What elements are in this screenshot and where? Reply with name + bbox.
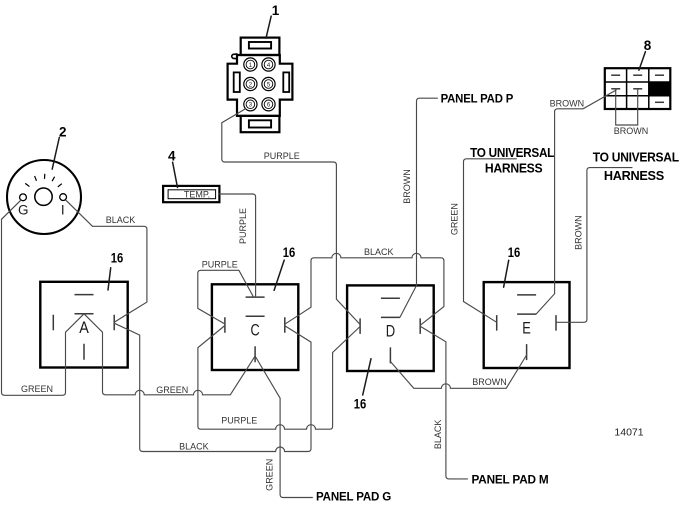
J1 pin 5 xyxy=(262,77,275,90)
label BLACK vertical at panel pad M xyxy=(433,420,443,450)
label PURPLE at relay C xyxy=(202,260,238,270)
svg-text:8: 8 xyxy=(644,38,652,53)
svg-text:A: A xyxy=(79,318,89,337)
wire black relay A right to relay C right terminal (bottom run) xyxy=(114,323,311,451)
svg-text:TO UNIVERSAL: TO UNIVERSAL xyxy=(593,151,680,165)
svg-text:16: 16 xyxy=(354,397,367,412)
wire green switch G to relay A center terminal xyxy=(2,200,85,395)
svg-text:PANEL PAD M: PANEL PAD M xyxy=(472,473,549,487)
svg-text:PANEL PAD P: PANEL PAD P xyxy=(441,91,514,105)
svg-text:BROWN: BROWN xyxy=(573,215,583,250)
key switch S2 xyxy=(7,160,81,234)
svg-text:TO UNIVERSAL: TO UNIVERSAL xyxy=(470,146,555,160)
wire green universal harness 1 to relay E left terminal xyxy=(464,159,517,322)
svg-text:HARNESS: HARNESS xyxy=(485,162,543,176)
svg-text:I: I xyxy=(61,202,65,217)
svg-text:G: G xyxy=(18,202,29,217)
label 16 for E with leader xyxy=(504,245,521,287)
wire brown PANEL PAD P to relay D center terminal xyxy=(400,98,438,317)
svg-text:TEMP.: TEMP. xyxy=(184,190,210,200)
label GREEN vertical at harness 1 xyxy=(449,203,459,235)
svg-text:PURPLE: PURPLE xyxy=(264,151,300,161)
label PURPLE bottom run xyxy=(221,416,257,426)
wire purple relay D left to bottom run to relay C left terminal xyxy=(198,326,360,430)
label 16 for A with leader xyxy=(108,250,124,290)
wire purple J1 pin3 to relay D left terminal xyxy=(222,109,360,325)
wire black relay D right to PANEL PAD M xyxy=(420,326,467,479)
label BROWN vertical at panel pad P xyxy=(402,169,412,204)
wire brown J8 to relay E top terminal xyxy=(536,90,616,314)
svg-text:E: E xyxy=(522,319,531,338)
svg-text:BLACK: BLACK xyxy=(364,247,394,257)
connector J1 (6-pin) xyxy=(228,38,293,133)
svg-text:D: D xyxy=(386,321,395,340)
svg-text:GREEN: GREEN xyxy=(156,385,188,395)
svg-text:PURPLE: PURPLE xyxy=(202,260,238,270)
node TO UNIVERSAL HARNESS 1 xyxy=(470,146,555,176)
svg-text:C: C xyxy=(251,320,260,339)
relay socket E xyxy=(484,282,570,368)
wire purple temp sender to relay C top terminal xyxy=(219,194,255,297)
svg-text:BROWN: BROWN xyxy=(550,99,585,109)
wire green relay C bottom to PANEL PAD G xyxy=(255,356,312,498)
label BROWN vertical at harness 2 xyxy=(573,215,583,250)
label GREEN left xyxy=(21,384,53,394)
svg-text:BLACK: BLACK xyxy=(433,420,443,450)
S2 terminal I xyxy=(60,194,67,218)
svg-text:1: 1 xyxy=(272,3,280,18)
label 8 with leader xyxy=(639,38,652,70)
svg-text:4: 4 xyxy=(168,149,176,164)
svg-text:BLACK: BLACK xyxy=(106,215,136,225)
relay socket C xyxy=(212,284,298,370)
label BLACK top run xyxy=(364,247,394,257)
J1 pin 4 xyxy=(262,58,275,71)
label BROWN between D and E xyxy=(472,377,507,387)
svg-text:PANEL PAD G: PANEL PAD G xyxy=(316,489,391,503)
svg-text:16: 16 xyxy=(283,245,296,260)
svg-text:PURPLE: PURPLE xyxy=(238,208,248,244)
relay socket D xyxy=(347,285,434,371)
J1 pin 1 xyxy=(244,58,257,71)
J1 pin 2 xyxy=(244,77,257,90)
node PANEL PAD G xyxy=(316,489,391,503)
svg-text:2: 2 xyxy=(59,124,67,139)
wire green relay A center to relay C bottom terminal xyxy=(84,314,255,395)
svg-text:16: 16 xyxy=(111,250,124,265)
node TO UNIVERSAL HARNESS 2 xyxy=(593,151,680,184)
label BLACK at switch xyxy=(106,215,136,225)
label BROWN at J8 xyxy=(550,99,585,109)
label PURPLE vertical at temp wire xyxy=(238,208,248,244)
J8 BROWN pin bracket xyxy=(614,90,649,137)
label PURPLE top xyxy=(264,151,300,161)
wire brown universal harness 2 to relay E right terminal xyxy=(556,168,632,323)
S2 terminal G xyxy=(18,194,29,217)
label 16 for D with leader xyxy=(354,359,371,412)
svg-text:HARNESS: HARNESS xyxy=(604,169,664,183)
J1 pin 6 xyxy=(262,98,275,111)
J1 pin 3 xyxy=(244,98,257,111)
label 4 with leader xyxy=(168,149,177,188)
node PANEL PAD P xyxy=(441,91,514,105)
label 2 with leader xyxy=(52,124,66,169)
part number 14071 xyxy=(614,427,643,439)
wire purple relay C left terminal to relay C top terminal xyxy=(198,270,254,324)
svg-text:14071: 14071 xyxy=(614,427,643,439)
wire black switch I to relay A right terminal xyxy=(66,200,147,322)
svg-text:PURPLE: PURPLE xyxy=(221,416,257,426)
svg-text:BLACK: BLACK xyxy=(179,441,209,451)
label 1 with leader xyxy=(266,3,280,38)
svg-text:BROWN: BROWN xyxy=(472,377,507,387)
temp sender 4 xyxy=(163,186,219,202)
svg-text:BROWN: BROWN xyxy=(614,126,649,136)
node PANEL PAD M xyxy=(472,473,549,487)
label GREEN vertical at panel pad G xyxy=(265,459,275,491)
wire brown relay D bottom to relay E bottom terminal xyxy=(390,355,526,388)
relay socket A xyxy=(40,282,127,368)
svg-text:GREEN: GREEN xyxy=(21,384,53,394)
svg-text:BROWN: BROWN xyxy=(402,169,412,204)
wire black relay C right to relay D right terminal (top run) xyxy=(285,253,444,325)
svg-text:GREEN: GREEN xyxy=(449,203,459,235)
J8 cavity dashes xyxy=(611,75,664,102)
label 16 for C with leader xyxy=(274,245,296,291)
connector J8 (9-cavity block) xyxy=(605,68,671,109)
svg-text:16: 16 xyxy=(508,245,521,260)
label BLACK bottom run xyxy=(179,441,209,451)
label GREEN mid xyxy=(156,385,188,395)
svg-text:GREEN: GREEN xyxy=(265,459,275,491)
